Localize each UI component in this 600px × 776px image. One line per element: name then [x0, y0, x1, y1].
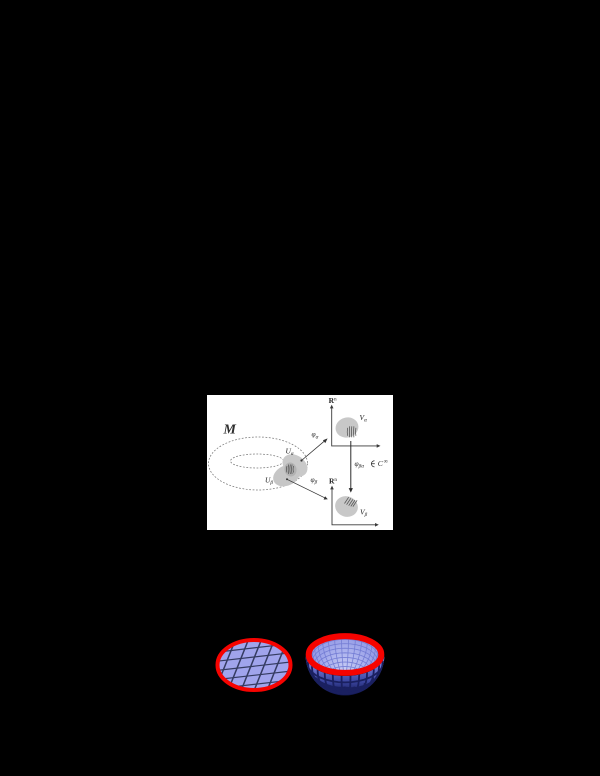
bowl exterior grid [306, 657, 384, 694]
blob V_alpha [333, 415, 360, 440]
figure 1 panel: manifold charts diagram [207, 395, 393, 530]
bowl red rim [309, 636, 382, 673]
V_alpha hatching [347, 426, 356, 437]
patch U_beta [270, 461, 304, 491]
patch overlap [283, 461, 298, 477]
upper axes R^n [332, 407, 379, 446]
svg-text:M: M [223, 423, 237, 438]
lower axes R^n [332, 488, 377, 525]
figure 2 panel: disk and bowl [205, 595, 395, 707]
overlap hatching [286, 465, 293, 475]
V_beta hatching [345, 497, 358, 506]
arrow phi_alpha [300, 459, 302, 461]
blob V_beta [332, 493, 361, 520]
patch U_alpha [278, 450, 312, 482]
svg-text:∞: ∞ [384, 459, 388, 465]
disk grid [214, 634, 302, 693]
element-of symbol [371, 461, 374, 467]
bowl interior [312, 636, 379, 672]
disk fill [219, 641, 289, 689]
transition map arrow [350, 441, 352, 490]
bowl exterior [306, 655, 385, 696]
torus outer ellipse [209, 437, 308, 490]
arrow phi_beta [286, 478, 288, 480]
bowl interior grid [312, 636, 379, 688]
disk red boundary [218, 640, 291, 690]
torus inner hole ellipse [231, 454, 284, 468]
